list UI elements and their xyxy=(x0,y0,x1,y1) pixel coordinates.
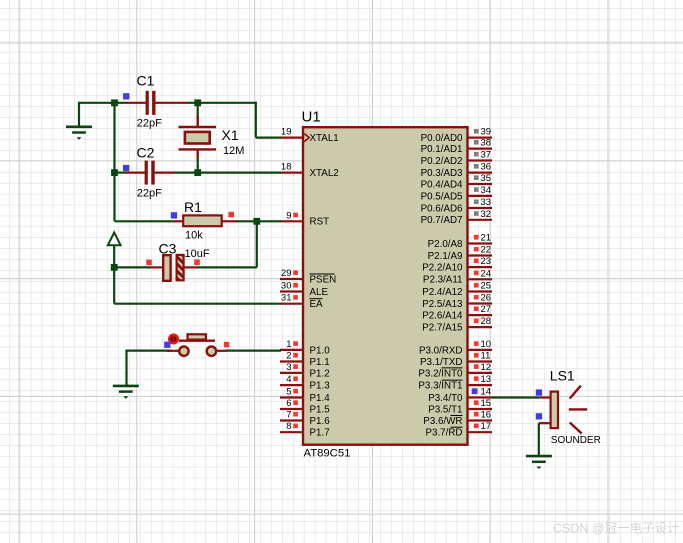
U1 pin 18 (XTAL2) stub + number xyxy=(280,162,339,179)
wire: C3 node down and across to pin 31 (EA) xyxy=(114,267,281,303)
capacitor C1 xyxy=(127,91,188,115)
power terminal (up arrow) xyxy=(108,233,121,246)
svg-text:XTAL1: XTAL1 xyxy=(310,133,339,144)
LS1 bottom blue state marker xyxy=(536,413,542,419)
svg-text:SOUNDER: SOUNDER xyxy=(551,435,601,446)
U1 pin 9 (RST) stub + number xyxy=(280,210,329,227)
U1 pin 19 (XTAL1) stub + number xyxy=(280,127,339,144)
C2 blue state marker xyxy=(123,165,129,171)
svg-text:10uF: 10uF xyxy=(185,248,210,260)
svg-text:P2.4/A12: P2.4/A12 xyxy=(422,287,462,298)
U1 pin 26 (P2.5/A13) stub + number xyxy=(422,293,492,310)
R1 reference label xyxy=(184,199,202,215)
svg-text:25: 25 xyxy=(481,281,492,292)
U1 pin 13 (P3.3/INT1) stub + number xyxy=(418,374,492,391)
svg-text:P0.2/AD2: P0.2/AD2 xyxy=(421,156,463,167)
U1 pin 30 (ALE) stub + number xyxy=(280,281,328,298)
U1 pin 4 (P1.3) stub + number xyxy=(280,374,330,391)
svg-text:36: 36 xyxy=(481,162,492,173)
U1 pin 11 (P3.1/TXD) stub + number xyxy=(420,351,492,368)
svg-text:P3.4/T0: P3.4/T0 xyxy=(428,393,463,404)
svg-text:4: 4 xyxy=(286,374,291,385)
ground G2 (button) xyxy=(113,386,139,399)
svg-text:P2.7/A15: P2.7/A15 xyxy=(422,323,463,334)
U1 pin 12 (P3.2/INT0) stub + number xyxy=(418,362,492,379)
U1 pin 35 (P0.4/AD4) stub + number xyxy=(421,173,492,190)
C1 reference label xyxy=(137,73,155,89)
node: X1 top junction dot xyxy=(194,99,201,106)
crystal X1 xyxy=(179,116,217,159)
U1 value label AT89C51 xyxy=(304,448,351,460)
U1 pin 17 (P3.7/RD) stub + number xyxy=(425,421,492,438)
button right red marker xyxy=(224,342,229,347)
svg-text:26: 26 xyxy=(481,293,492,304)
U1 pin 15 (P3.5/T1) stub + number xyxy=(428,398,492,415)
svg-text:P3.3/INT1: P3.3/INT1 xyxy=(418,381,462,392)
svg-text:X1: X1 xyxy=(222,127,239,143)
svg-text:P1.2: P1.2 xyxy=(310,368,330,379)
node: C1 left / rail junction dot xyxy=(111,99,118,106)
svg-text:P3.6/WR: P3.6/WR xyxy=(423,416,462,427)
R1 right red marker xyxy=(228,212,234,218)
wire: top oscillator rail (C1 row) from ground branch to XTAL1 xyxy=(79,102,281,138)
svg-text:13: 13 xyxy=(481,374,492,385)
svg-text:22: 22 xyxy=(481,245,492,256)
ground G3 (sounder) xyxy=(526,456,552,469)
U1 pin 16 (P3.6/WR) stub + number xyxy=(423,410,492,427)
LS1 top blue state marker xyxy=(536,389,542,395)
C1 value label 22pF xyxy=(137,118,162,130)
U1 pin 22 (P2.1/A9) stub + number xyxy=(428,245,492,262)
svg-text:22pF: 22pF xyxy=(137,118,162,130)
svg-text:P1.7: P1.7 xyxy=(310,428,330,439)
svg-text:P1.5: P1.5 xyxy=(310,404,331,415)
U1 pin 14 (P3.4/T0) stub + number xyxy=(428,387,492,404)
svg-text:30: 30 xyxy=(281,281,292,292)
svg-text:P2.1/A9: P2.1/A9 xyxy=(428,251,463,262)
svg-text:5: 5 xyxy=(286,387,291,398)
svg-text:31: 31 xyxy=(281,293,292,304)
svg-text:38: 38 xyxy=(481,138,492,149)
svg-text:P3.1/TXD: P3.1/TXD xyxy=(420,357,462,368)
svg-text:1: 1 xyxy=(286,339,291,350)
svg-text:34: 34 xyxy=(481,185,492,196)
svg-text:P0.7/AD7: P0.7/AD7 xyxy=(421,215,463,226)
svg-text:ALE: ALE xyxy=(310,287,329,298)
svg-text:15: 15 xyxy=(481,398,492,409)
svg-text:8: 8 xyxy=(286,421,291,432)
svg-text:32: 32 xyxy=(481,209,492,220)
C3 value label 10uF xyxy=(185,248,210,260)
svg-text:P0.3/AD3: P0.3/AD3 xyxy=(421,168,463,179)
U1 pin 38 (P0.1/AD1) stub + number xyxy=(421,138,492,155)
ground G1 (oscillator) xyxy=(66,127,92,140)
svg-text:C1: C1 xyxy=(137,73,155,89)
capacitor C2 xyxy=(127,161,174,185)
svg-text:10: 10 xyxy=(481,339,492,350)
svg-text:P1.0: P1.0 xyxy=(310,345,331,356)
svg-text:PSEN: PSEN xyxy=(310,274,337,285)
U1 pin 36 (P0.3/AD3) stub + number xyxy=(421,162,492,179)
svg-text:12M: 12M xyxy=(223,145,244,157)
U1 pin 23 (P2.2/A10) stub + number xyxy=(422,256,492,273)
svg-text:AT89C51: AT89C51 xyxy=(304,448,351,460)
LS1 reference label xyxy=(550,367,575,383)
wire: vertical rail C1-C2-R1 (x=114.5) xyxy=(113,103,115,222)
X1 reference label xyxy=(222,127,239,143)
svg-text:28: 28 xyxy=(481,316,492,327)
U1 pin 32 (P0.7/AD7) stub + number xyxy=(421,209,492,226)
svg-text:P0.1/AD1: P0.1/AD1 xyxy=(421,144,463,155)
op-amp U1 body: AT89C51 IC rectangle xyxy=(303,127,468,445)
resistor R1 xyxy=(174,215,235,226)
wire: RST row from rail through R1 to pin 9 xyxy=(115,220,282,222)
svg-text:10k: 10k xyxy=(185,229,203,241)
svg-text:12: 12 xyxy=(481,362,492,373)
U1 pin 33 (P0.6/AD6) stub + number xyxy=(421,197,492,214)
U1 pin 21 (P2.0/A8) stub + number xyxy=(428,233,492,250)
push button (switch) xyxy=(167,334,227,356)
U1 pin 28 (P2.7/A15) stub + number xyxy=(422,316,492,333)
R1 blue state marker xyxy=(171,212,177,218)
U1 reference label xyxy=(302,109,321,126)
svg-text:24: 24 xyxy=(481,268,492,279)
wire: button left down to ground G2 xyxy=(125,350,127,386)
wire: C2/XTAL2 row to pin 18 xyxy=(115,172,282,174)
watermark text xyxy=(553,521,680,536)
svg-text:P0.5/AD5: P0.5/AD5 xyxy=(421,191,463,202)
C3 reference label xyxy=(159,241,177,257)
svg-text:37: 37 xyxy=(481,150,492,161)
svg-text:C2: C2 xyxy=(137,145,155,161)
svg-text:3: 3 xyxy=(286,362,291,373)
wire: left vertical to ground G1 xyxy=(78,102,80,127)
U1 pin 3 (P1.2) stub + number xyxy=(280,362,330,379)
U1 pin 6 (P1.5) stub + number xyxy=(280,398,330,415)
svg-text:RST: RST xyxy=(310,217,330,228)
svg-text:21: 21 xyxy=(481,233,492,244)
svg-text:LS1: LS1 xyxy=(550,367,575,383)
U1 pin 34 (P0.5/AD5) stub + number xyxy=(421,185,492,202)
U1 pin 7 (P1.6) stub + number xyxy=(280,410,330,427)
svg-text:P3.5/T1: P3.5/T1 xyxy=(428,404,462,415)
svg-text:29: 29 xyxy=(281,268,292,279)
U1 pin 27 (P2.6/A14) stub + number xyxy=(422,304,492,321)
svg-text:23: 23 xyxy=(481,256,492,267)
svg-text:P1.4: P1.4 xyxy=(310,393,331,404)
X1 value label 12M xyxy=(223,145,244,157)
svg-text:39: 39 xyxy=(481,127,492,138)
svg-text:P3.7/RD: P3.7/RD xyxy=(425,428,462,439)
svg-text:9: 9 xyxy=(286,210,291,221)
svg-text:33: 33 xyxy=(481,197,492,208)
svg-text:P0.0/AD0: P0.0/AD0 xyxy=(421,133,463,144)
svg-text:27: 27 xyxy=(481,304,492,315)
svg-text:P3.2/INT0: P3.2/INT0 xyxy=(418,368,463,379)
wire: power terminal stem to C3 left node xyxy=(113,245,115,267)
node: C2 left / rail junction dot xyxy=(111,169,118,176)
node: power / C3 / EA junction dot xyxy=(111,264,118,271)
svg-text:P2.2/A10: P2.2/A10 xyxy=(422,263,463,274)
U1 pin 2 (P1.1) stub + number xyxy=(280,351,330,368)
svg-text:P2.5/A13: P2.5/A13 xyxy=(422,299,463,310)
C1 blue state marker xyxy=(123,93,129,99)
U1 pin 5 (P1.4) stub + number xyxy=(280,387,330,404)
svg-text:P1.6: P1.6 xyxy=(310,416,331,427)
svg-text:19: 19 xyxy=(281,127,292,138)
wire: crystal X1 vertical taps xyxy=(197,103,199,173)
wire: RST node down to C3 right lead xyxy=(197,221,257,267)
U1 pin 24 (P2.3/A11) stub + number xyxy=(423,268,492,285)
U1 pin 25 (P2.4/A12) stub + number xyxy=(422,281,492,298)
C3 right red marker xyxy=(194,259,200,265)
svg-text:C3: C3 xyxy=(159,241,177,257)
svg-text:EA: EA xyxy=(310,299,324,310)
U1 pin 8 (P1.7) stub + number xyxy=(280,421,330,438)
LS1 value label SOUNDER xyxy=(551,435,601,446)
svg-text:CSDN @冠一电子设计: CSDN @冠一电子设计 xyxy=(553,521,680,536)
svg-text:14: 14 xyxy=(481,387,492,398)
wire: sounder bottom pin down to ground G3 xyxy=(538,423,540,456)
capacitor C3 (electrolytic) xyxy=(150,255,197,281)
svg-text:P2.6/A14: P2.6/A14 xyxy=(422,311,463,322)
sounder LS1 xyxy=(539,386,587,434)
U1 pin 39 (P0.0/AD0) stub + number xyxy=(421,127,492,144)
svg-text:16: 16 xyxy=(481,410,492,421)
node: RST / C3 junction dot xyxy=(253,218,260,225)
svg-text:P2.0/A8: P2.0/A8 xyxy=(428,239,463,250)
U1 pin 37 (P0.2/AD2) stub + number xyxy=(421,150,492,167)
wire: C3 left node to capacitor xyxy=(114,266,150,268)
svg-text:R1: R1 xyxy=(184,199,202,215)
C3 left red marker xyxy=(146,260,152,266)
svg-text:P1.3: P1.3 xyxy=(310,381,331,392)
svg-text:17: 17 xyxy=(481,421,492,432)
U1 pin 1 (P1.0) stub + number xyxy=(280,339,330,356)
svg-text:2: 2 xyxy=(286,351,291,362)
wire: pin 14 (P3.4/T0) to sounder LS1 xyxy=(492,396,539,398)
svg-text:22pF: 22pF xyxy=(137,187,162,199)
svg-text:P2.3/A11: P2.3/A11 xyxy=(423,275,463,286)
node: X1 bottom junction dot xyxy=(194,169,201,176)
svg-text:XTAL2: XTAL2 xyxy=(310,168,339,179)
svg-text:7: 7 xyxy=(286,410,291,421)
C2 reference label xyxy=(137,145,155,161)
svg-text:P1.1: P1.1 xyxy=(310,357,330,368)
svg-text:P3.0/RXD: P3.0/RXD xyxy=(419,345,463,356)
button blue state marker xyxy=(164,342,170,348)
svg-text:18: 18 xyxy=(281,162,292,173)
svg-text:6: 6 xyxy=(286,398,291,409)
svg-text:U1: U1 xyxy=(302,109,321,126)
svg-text:P0.4/AD4: P0.4/AD4 xyxy=(421,179,463,190)
R1 value label 10k xyxy=(185,229,203,241)
U1 pin 31 (EA) stub + number xyxy=(280,293,323,310)
wire: button row to pin 1 (P1.0) xyxy=(127,350,282,352)
button actuator icon (red circle) xyxy=(169,335,177,343)
svg-text:11: 11 xyxy=(481,351,491,362)
svg-text:P0.6/AD6: P0.6/AD6 xyxy=(421,203,463,214)
C2 value label 22pF xyxy=(137,187,162,199)
U1 pin 29 (PSEN) stub + number xyxy=(280,268,336,285)
svg-text:35: 35 xyxy=(481,173,492,184)
U1 pin 10 (P3.0/RXD) stub + number xyxy=(419,339,492,356)
